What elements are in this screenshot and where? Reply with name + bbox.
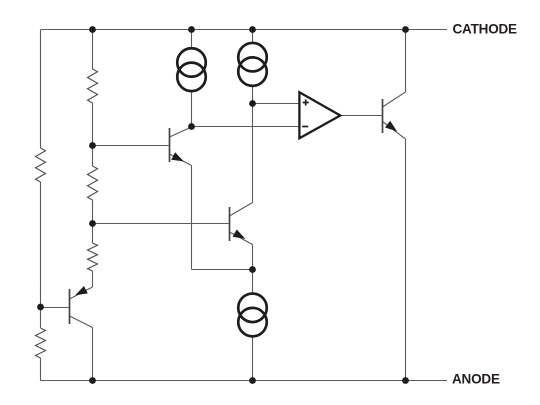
svg-text:ANODE: ANODE [452,372,500,387]
svg-text:CATHODE: CATHODE [453,21,518,36]
